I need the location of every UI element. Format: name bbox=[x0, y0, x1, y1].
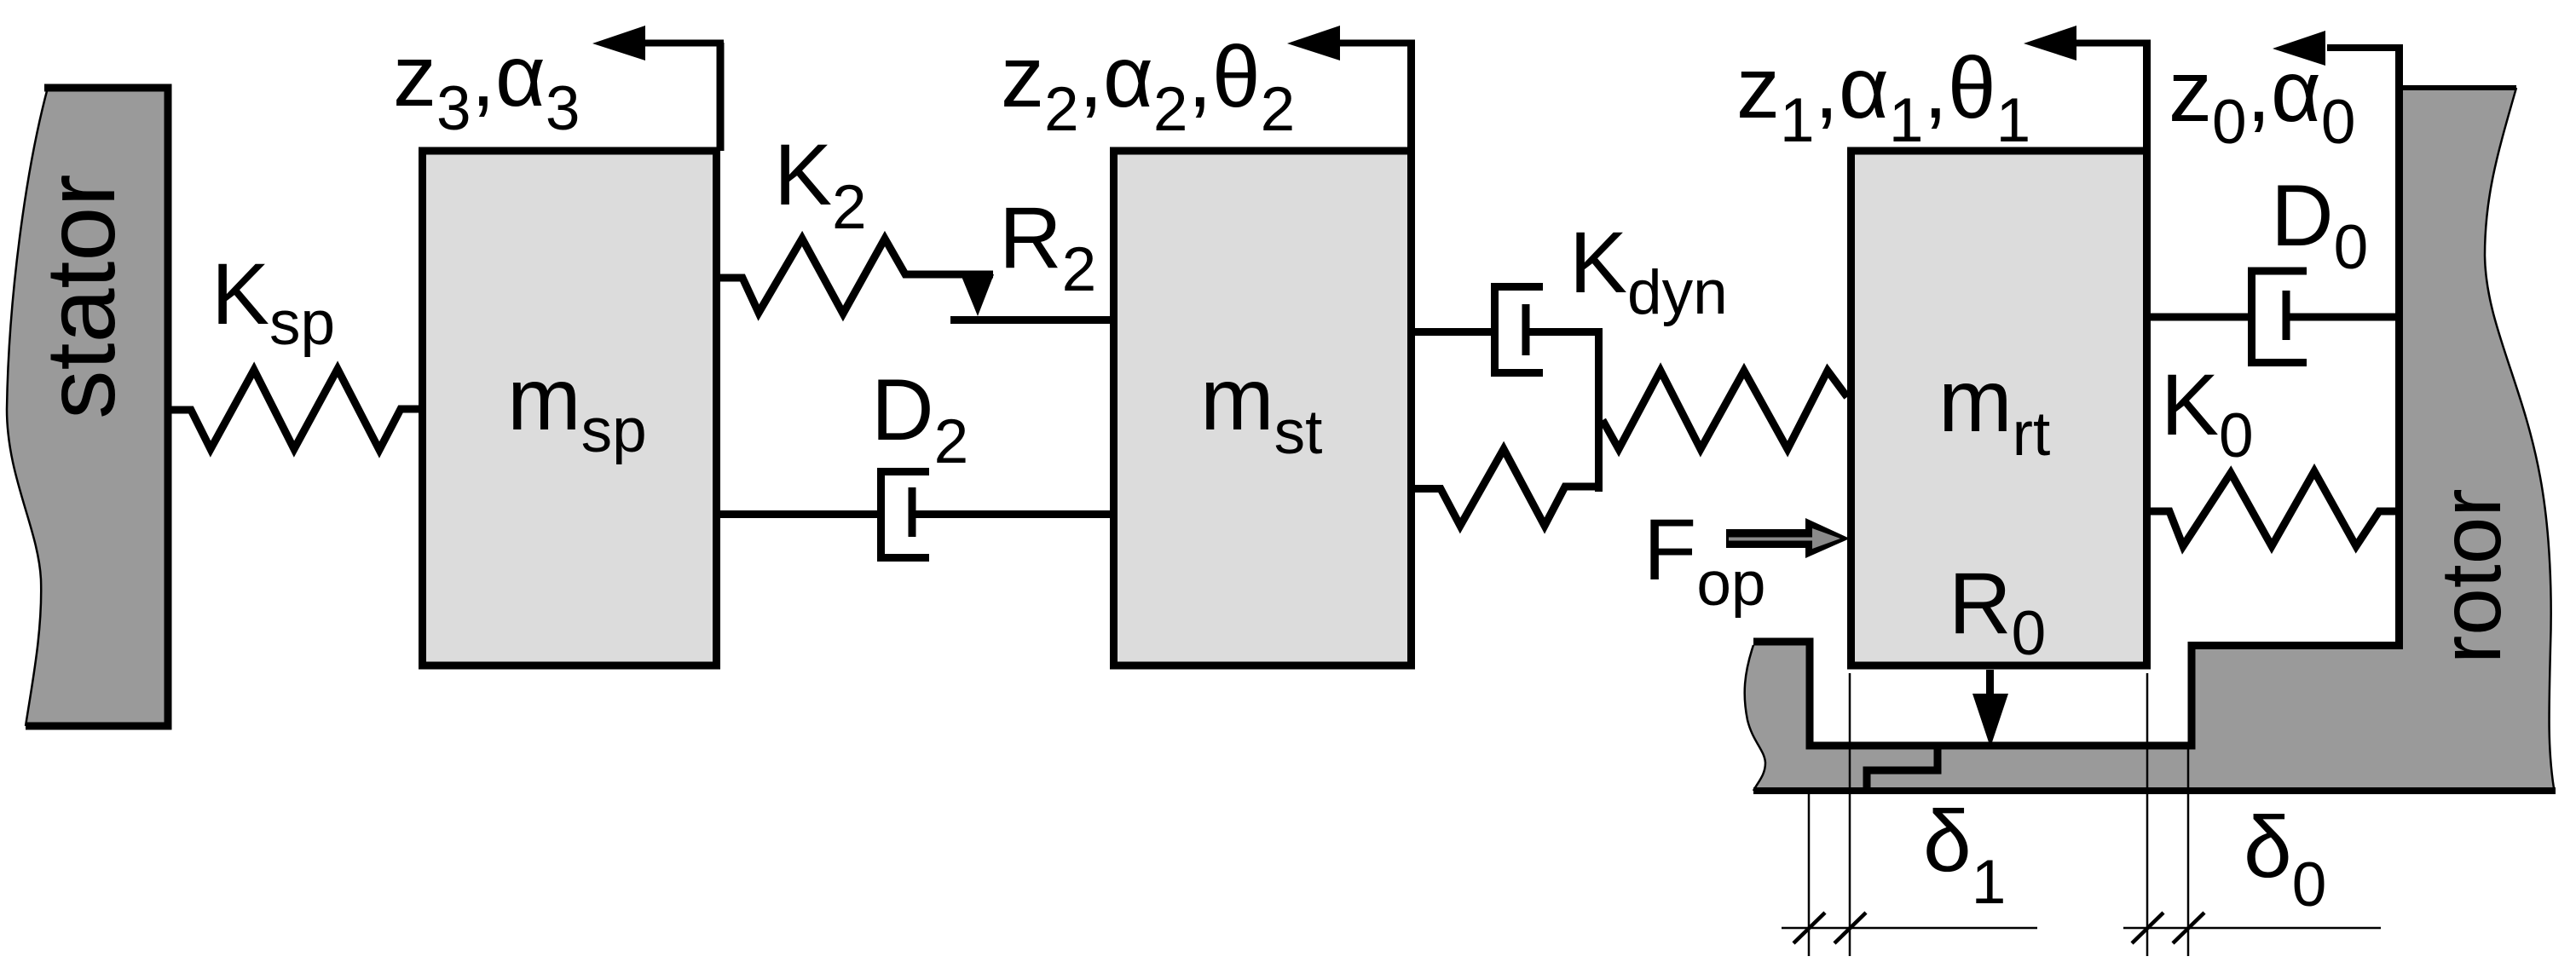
svg-text:Kdyn: Kdyn bbox=[1569, 214, 1728, 327]
rotor body bbox=[1745, 44, 2556, 791]
damper D2 bbox=[717, 472, 1110, 558]
svg-text:stator: stator bbox=[26, 174, 136, 419]
svg-text:R2: R2 bbox=[999, 189, 1096, 304]
label Fop bbox=[1643, 501, 1766, 619]
svg-text:Ksp: Ksp bbox=[211, 245, 335, 358]
label K0 bbox=[2161, 356, 2254, 470]
mass mst bbox=[1114, 151, 1412, 665]
label K2 bbox=[774, 126, 867, 242]
z0 arrow bbox=[2273, 31, 2397, 66]
label z2,a2,th2 bbox=[1001, 28, 1295, 144]
svg-text:Fop: Fop bbox=[1643, 501, 1766, 619]
svg-text:z3,α3: z3,α3 bbox=[393, 27, 580, 143]
witness line at 2122 bbox=[1808, 792, 1811, 956]
mass msp bbox=[423, 151, 717, 665]
svg-text:z2,α2,θ2: z2,α2,θ2 bbox=[1001, 28, 1295, 144]
spring Kdyn lower branch bbox=[1411, 449, 1599, 526]
rotor step lines bbox=[1867, 748, 1938, 791]
rotor label bbox=[2423, 488, 2519, 664]
label Ksp bbox=[211, 245, 335, 358]
force arrow Fop bbox=[1726, 518, 1850, 558]
label z0,a0 bbox=[2169, 43, 2356, 157]
label R2 bbox=[999, 189, 1096, 304]
svg-text:z0,α0: z0,α0 bbox=[2169, 43, 2356, 157]
Kdyn vertical connector bbox=[1595, 328, 1603, 492]
spring K0 bbox=[2151, 471, 2396, 546]
witness line at 2170 bbox=[1849, 673, 1851, 956]
witness line at 2567 bbox=[2187, 743, 2190, 956]
spring Kdyn main bbox=[1603, 371, 1847, 449]
label R0 bbox=[1949, 555, 2046, 668]
label mrt bbox=[1938, 352, 2050, 469]
svg-text:rotor: rotor bbox=[2423, 488, 2519, 664]
svg-text:δ0: δ0 bbox=[2244, 798, 2326, 919]
stator body bbox=[7, 88, 168, 726]
label delta1 bbox=[1923, 792, 2006, 917]
svg-text:z1,α1,θ1: z1,α1,θ1 bbox=[1736, 39, 2030, 155]
witness line at 2519 bbox=[2146, 673, 2149, 956]
damper D0 bbox=[2146, 271, 2398, 363]
label D2 bbox=[871, 361, 968, 476]
mass mrt bbox=[1851, 151, 2147, 665]
contact arrow R2 bbox=[950, 274, 1110, 320]
label mst bbox=[1200, 350, 1322, 467]
contact arrow R0 bbox=[1972, 670, 2008, 747]
stator label bbox=[26, 174, 136, 419]
damper Kdyn upper branch bbox=[1411, 287, 1603, 373]
svg-text:D2: D2 bbox=[871, 361, 968, 476]
displacement arrow z2 bbox=[1287, 26, 1415, 151]
label delta0 bbox=[2244, 798, 2326, 919]
label Kdyn bbox=[1569, 214, 1728, 327]
label msp bbox=[507, 350, 647, 465]
svg-text:D0: D0 bbox=[2271, 167, 2368, 282]
spring K2 bbox=[720, 239, 993, 314]
svg-text:δ1: δ1 bbox=[1923, 792, 2006, 917]
svg-text:K0: K0 bbox=[2161, 356, 2254, 470]
displacement arrow z3 bbox=[592, 26, 724, 151]
label D0 bbox=[2271, 167, 2368, 282]
label z1,a1,th1 bbox=[1736, 39, 2030, 155]
svg-text:K2: K2 bbox=[774, 126, 867, 242]
spring Ksp bbox=[170, 369, 421, 450]
dimension line delta0 bbox=[2123, 913, 2381, 943]
label z3,a3 bbox=[393, 27, 580, 143]
dimension line delta1 bbox=[1782, 913, 2037, 943]
displacement arrow z1 bbox=[2024, 26, 2151, 151]
